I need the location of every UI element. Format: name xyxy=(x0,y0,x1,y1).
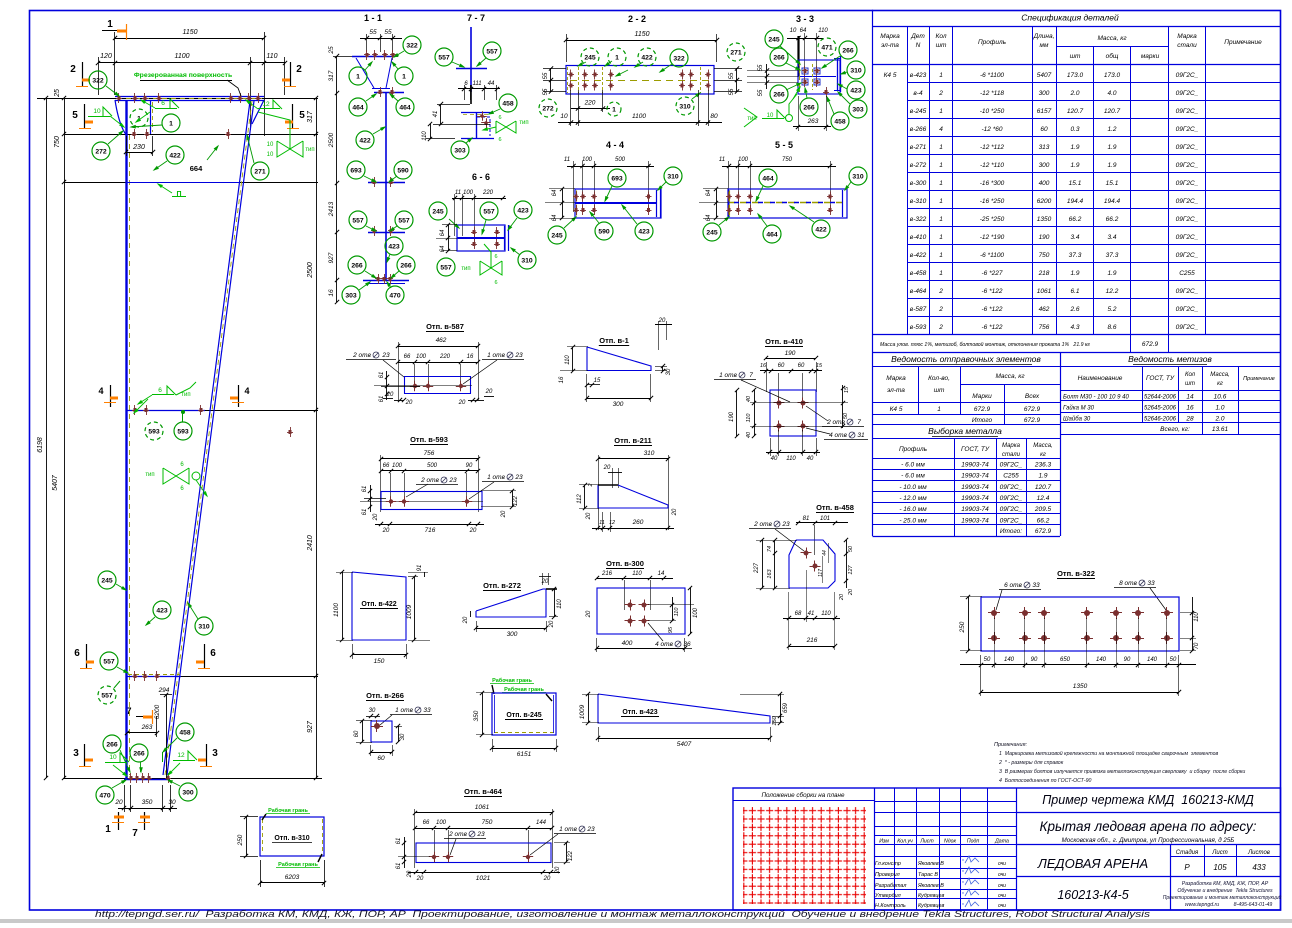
svg-text:Примечание: Примечание xyxy=(1243,376,1275,382)
svg-text:10: 10 xyxy=(267,152,274,158)
svg-text:19903-74: 19903-74 xyxy=(961,495,989,502)
svg-text:2: 2 xyxy=(588,483,594,487)
svg-text:557: 557 xyxy=(103,659,115,666)
svg-text:Дет: Дет xyxy=(910,33,925,40)
svg-text:Гайка М 30: Гайка М 30 xyxy=(1063,405,1095,412)
detail p-1 plate xyxy=(587,347,651,371)
svg-text:127: 127 xyxy=(848,564,854,574)
svg-text:6200: 6200 xyxy=(1037,198,1052,205)
svg-text:462: 462 xyxy=(436,337,447,344)
svg-text:590: 590 xyxy=(397,168,409,175)
svg-text:Марка: Марка xyxy=(1177,33,1197,40)
svg-text:1: 1 xyxy=(937,406,941,413)
svg-text:1 Маркировка метизовой крепеж: 1 Маркировка метизовой крепежности на мо… xyxy=(999,750,1219,757)
svg-text:Примечание: Примечание xyxy=(1224,39,1262,46)
svg-text:303: 303 xyxy=(345,293,357,300)
svg-text:11: 11 xyxy=(599,520,605,526)
svg-text:в-423: в-423 xyxy=(910,72,927,79)
svg-text:250: 250 xyxy=(959,621,966,633)
svg-text:15.1: 15.1 xyxy=(1069,180,1082,187)
svg-text:1: 1 xyxy=(939,270,943,277)
section 6-6 left dims 64 64 xyxy=(448,225,450,251)
signature scribbles xyxy=(965,856,979,863)
elevation section 6-6 level line xyxy=(126,676,318,678)
svg-text:55: 55 xyxy=(729,72,735,79)
svg-text:09Г2С_: 09Г2С_ xyxy=(1176,144,1199,151)
base plate xyxy=(124,779,170,781)
svg-text:-12 *110: -12 *110 xyxy=(980,162,1004,169)
svg-text:3: 3 xyxy=(212,748,218,759)
svg-text:-12 *118: -12 *118 xyxy=(980,90,1004,97)
svg-text:266: 266 xyxy=(773,55,785,62)
svg-text:очи: очи xyxy=(998,883,1006,889)
section 7-7 circle 458 xyxy=(499,94,517,112)
section 6-6 top dims 11 100 220 xyxy=(452,198,506,200)
svg-text:464: 464 xyxy=(762,176,774,183)
section 3-3 plate assembly xyxy=(798,60,840,94)
svg-text:09Г2С_: 09Г2С_ xyxy=(1176,216,1199,223)
svg-text:ЛЕДОВАЯ АРЕНА: ЛЕДОВАЯ АРЕНА xyxy=(1037,856,1148,871)
svg-text:К4 5: К4 5 xyxy=(884,72,897,79)
svg-text:263: 263 xyxy=(807,118,819,125)
svg-text:1.9: 1.9 xyxy=(1107,144,1116,151)
svg-text:458: 458 xyxy=(502,101,514,108)
detail p-1 dims xyxy=(572,347,574,371)
svg-text:09Г2С_: 09Г2С_ xyxy=(1176,288,1199,295)
svg-text:20: 20 xyxy=(386,392,394,398)
svg-text:1: 1 xyxy=(105,824,111,835)
svg-text:-6 *122: -6 *122 xyxy=(982,306,1003,313)
svg-text:105: 105 xyxy=(1213,863,1227,872)
spec table mass row xyxy=(873,334,1281,336)
svg-text:Кол-во,: Кол-во, xyxy=(928,375,950,382)
detail p-581 left dims xyxy=(386,371,388,400)
svg-text:-16 *300: -16 *300 xyxy=(980,180,1005,187)
svg-text:140: 140 xyxy=(1096,657,1107,663)
svg-text:30: 30 xyxy=(168,799,176,806)
detail p-581 plate xyxy=(404,376,471,378)
svg-text:Примечания:: Примечания: xyxy=(994,742,1028,748)
svg-text:19903-74: 19903-74 xyxy=(961,473,989,480)
svg-text:Масса улов. плюс 1%, метизоб,: Масса улов. плюс 1%, метизоб, болтовой м… xyxy=(880,341,1090,348)
svg-text:44: 44 xyxy=(488,81,495,87)
section 1-1 circles 557 xyxy=(349,211,367,229)
detail p-266 dims xyxy=(362,721,364,742)
svg-text:150: 150 xyxy=(374,658,385,665)
svg-text:6.1: 6.1 xyxy=(1070,288,1079,295)
svg-text:64: 64 xyxy=(552,214,558,221)
section marks 4 mid xyxy=(110,385,112,407)
svg-text:http://tepngd.ser.ru/ Разрабо: http://tepngd.ser.ru/ Разработка КМ, КМД… xyxy=(95,909,1150,920)
section 2-2 dashed circles 245 1 422 xyxy=(581,48,599,66)
svg-text:Рабочая грань: Рабочая грань xyxy=(492,677,532,684)
svg-text:1: 1 xyxy=(939,198,943,205)
svg-text:150: 150 xyxy=(772,715,778,725)
svg-text:-12 *60: -12 *60 xyxy=(982,126,1003,133)
svg-text:Кол.уч: Кол.уч xyxy=(897,839,913,845)
svg-text:28: 28 xyxy=(1185,416,1194,423)
svg-text:-6 *122: -6 *122 xyxy=(982,288,1003,295)
svg-text:310: 310 xyxy=(850,68,862,75)
detail p-410 dim 190 xyxy=(766,358,816,360)
svg-text:09Г2С_: 09Г2С_ xyxy=(1176,72,1199,79)
svg-text:2.0: 2.0 xyxy=(1214,416,1224,423)
svg-text:Рабочая грань: Рабочая грань xyxy=(268,807,308,814)
section 3-3 bolt squares xyxy=(802,68,808,74)
detail p-300 top dims xyxy=(597,578,673,580)
svg-text:Разработка КМ, КМД, КЖ, ПОР, А: Разработка КМ, КМД, КЖ, ПОР, АР xyxy=(1182,881,1269,887)
detail p-458 left dims xyxy=(774,540,776,588)
svg-text:10.6: 10.6 xyxy=(1214,394,1227,401)
svg-text:322: 322 xyxy=(673,56,685,63)
circle 245 mid xyxy=(98,571,116,589)
dim 263 xyxy=(127,732,157,734)
svg-text:5.2: 5.2 xyxy=(1107,306,1116,313)
svg-text:19903-74: 19903-74 xyxy=(961,506,989,513)
svg-text:тип: тип xyxy=(181,392,190,398)
svg-text:Отп. в-410: Отп. в-410 xyxy=(765,337,803,346)
svg-text:в-300: в-300 xyxy=(910,180,927,187)
svg-text:61: 61 xyxy=(362,509,368,516)
svg-text:31: 31 xyxy=(857,432,865,439)
svg-text:471: 471 xyxy=(821,45,833,52)
svg-text:245: 245 xyxy=(551,233,563,240)
svg-text:Положение сборки на плане: Положение сборки на плане xyxy=(761,791,845,799)
section 6-6 circles xyxy=(429,202,447,220)
svg-text:303: 303 xyxy=(454,148,466,155)
section marks 2 xyxy=(82,62,84,86)
svg-text:16: 16 xyxy=(328,289,335,297)
svg-text:20: 20 xyxy=(839,593,845,601)
detail p-272 dims xyxy=(476,628,546,630)
svg-text:Отп. в-587: Отп. в-587 xyxy=(426,322,464,331)
detail p-466 bolts xyxy=(432,855,436,859)
section 4-4 circles xyxy=(608,169,626,187)
svg-text:313: 313 xyxy=(1039,144,1050,151)
svg-text:Отп. в-211: Отп. в-211 xyxy=(614,436,651,445)
svg-text:55: 55 xyxy=(369,29,377,36)
svg-text:160213-К4-5: 160213-К4-5 xyxy=(1057,888,1128,902)
svg-text:09Г2С_: 09Г2С_ xyxy=(1176,306,1199,313)
section marks 6 xyxy=(86,644,88,668)
svg-text:41: 41 xyxy=(433,111,439,118)
svg-text:Лист: Лист xyxy=(919,839,934,845)
svg-text:423: 423 xyxy=(156,608,168,615)
svg-text:458: 458 xyxy=(834,119,846,126)
svg-text:50: 50 xyxy=(1170,657,1177,663)
svg-text:20: 20 xyxy=(463,616,469,624)
svg-text:2: 2 xyxy=(70,64,76,75)
detail p-272 plate xyxy=(476,589,546,617)
svg-text:Отп. в-422: Отп. в-422 xyxy=(361,601,396,608)
detail p-593 plate xyxy=(381,492,482,510)
svg-text:очи: очи xyxy=(998,872,1006,878)
svg-text:Отп. в-464: Отп. в-464 xyxy=(464,787,503,796)
svg-text:95: 95 xyxy=(668,626,674,633)
svg-text:Изм: Изм xyxy=(879,839,889,845)
svg-text:220: 220 xyxy=(482,190,494,196)
svg-text:74: 74 xyxy=(767,546,773,552)
section 7-7 dims 6-111-44 xyxy=(458,88,500,90)
section 6-6 blue segment xyxy=(127,676,181,678)
section 7-7 vertical member xyxy=(470,27,472,92)
svg-text:Отп. в-310: Отп. в-310 xyxy=(274,835,309,842)
detail p-581 bolt row line xyxy=(374,385,472,387)
svg-text:23: 23 xyxy=(514,352,523,359)
svg-text:10: 10 xyxy=(790,28,797,34)
detail p-245 dim 350 xyxy=(482,693,484,735)
section 4-4 bolts xyxy=(576,192,578,202)
svg-text:50: 50 xyxy=(848,545,854,552)
svg-text:09Г2С_: 09Г2С_ xyxy=(1176,324,1199,331)
svg-text:Тарас В: Тарас В xyxy=(918,872,938,878)
svg-text:227: 227 xyxy=(754,562,760,574)
svg-text:15: 15 xyxy=(594,378,601,384)
circle 271 xyxy=(251,162,269,180)
vedomost metizov table xyxy=(1142,366,1144,423)
top chord bolt marks xyxy=(118,93,120,103)
svg-text:750: 750 xyxy=(782,157,793,163)
detail p-300 bolts xyxy=(628,603,633,608)
detail p-581 bolts xyxy=(413,384,417,388)
svg-text:2500: 2500 xyxy=(328,132,335,148)
svg-text:20: 20 xyxy=(485,389,493,395)
detail p-211 plate xyxy=(598,485,668,508)
circle 310 mid xyxy=(195,617,213,635)
svg-text:245: 245 xyxy=(706,230,718,237)
detail p-310 dim 250 xyxy=(246,817,248,856)
svg-text:120.7: 120.7 xyxy=(1067,108,1084,115)
svg-text:кг: кг xyxy=(1040,452,1046,458)
svg-text:09Г2С_: 09Г2С_ xyxy=(1176,162,1199,169)
svg-text:1061: 1061 xyxy=(1037,288,1052,295)
svg-text:20: 20 xyxy=(407,870,413,878)
svg-text:11: 11 xyxy=(455,190,461,196)
svg-text:Отп. в-458: Отп. в-458 xyxy=(816,503,854,512)
title block project name row xyxy=(1017,812,1281,814)
svg-text:09Г2С_: 09Г2С_ xyxy=(1176,90,1199,97)
svg-text:3.4: 3.4 xyxy=(1070,234,1079,241)
section marks 3 xyxy=(84,744,86,766)
svg-text:100: 100 xyxy=(582,157,593,163)
svg-text:1: 1 xyxy=(939,252,943,259)
svg-text:557: 557 xyxy=(352,218,364,225)
svg-text:1: 1 xyxy=(107,19,113,30)
svg-text:1350: 1350 xyxy=(1073,683,1088,690)
svg-text:650: 650 xyxy=(1060,657,1071,663)
svg-text:ГОСТ, ТУ: ГОСТ, ТУ xyxy=(961,446,990,453)
svg-text:-12 *190: -12 *190 xyxy=(980,234,1005,241)
svg-text:4: 4 xyxy=(939,126,943,133)
svg-text:672.9: 672.9 xyxy=(1035,528,1052,535)
svg-text:Масса,: Масса, xyxy=(1210,372,1229,378)
svg-text:20: 20 xyxy=(555,866,561,874)
svg-text:716: 716 xyxy=(425,527,436,534)
svg-text:6: 6 xyxy=(498,115,501,121)
circle 266 pair at base xyxy=(103,735,121,753)
section 6-6 line bolt marks xyxy=(134,671,136,681)
detail p-272 right dims xyxy=(554,589,556,617)
circle 1 solid xyxy=(162,114,180,132)
detail p-458 bolts xyxy=(804,551,809,556)
svg-text:60: 60 xyxy=(377,755,385,762)
svg-text:60: 60 xyxy=(798,363,805,369)
svg-text:Рабочая грань: Рабочая грань xyxy=(504,686,544,693)
svg-text:-25 *250: -25 *250 xyxy=(980,216,1005,223)
svg-text:шт: шт xyxy=(936,42,947,49)
svg-text:Итого: Итого xyxy=(972,417,993,424)
svg-text:41: 41 xyxy=(808,611,815,617)
svg-text:310: 310 xyxy=(198,624,210,631)
spec table column lines xyxy=(907,65,909,335)
svg-text:стали: стали xyxy=(1002,452,1021,458)
svg-text:4 отв: 4 отв xyxy=(655,641,673,648)
detail p-211 dim 310 xyxy=(598,458,668,460)
svg-text:64: 64 xyxy=(706,189,712,196)
svg-text:7: 7 xyxy=(749,372,753,379)
svg-text:Проверил: Проверил xyxy=(875,872,900,878)
svg-text:190: 190 xyxy=(785,350,796,357)
svg-text:6: 6 xyxy=(494,280,497,286)
svg-text:40: 40 xyxy=(771,456,778,462)
detail p-581 bottom dims xyxy=(394,400,404,402)
svg-text:557: 557 xyxy=(483,209,495,216)
svg-text:Nдок: Nдок xyxy=(944,839,956,845)
svg-text:2 * - размеры для справок: 2 * - размеры для справок xyxy=(998,760,1064,766)
detail p-581 dim 462 xyxy=(398,346,478,348)
svg-text:672.9: 672.9 xyxy=(1024,406,1041,413)
svg-text:173.0: 173.0 xyxy=(1104,72,1121,79)
svg-text:в-464: в-464 xyxy=(910,288,927,295)
detail p-300 right dims xyxy=(672,597,674,621)
svg-text:163: 163 xyxy=(767,568,773,578)
detail p-458 top dims xyxy=(796,522,848,524)
svg-text:659: 659 xyxy=(783,702,789,713)
svg-text:1.0: 1.0 xyxy=(1215,405,1224,412)
title block object row xyxy=(1017,876,1281,878)
svg-text:12: 12 xyxy=(262,101,270,108)
section 3-3 right I-end xyxy=(837,58,839,90)
svg-text:мм: мм xyxy=(1040,42,1049,49)
svg-text:100: 100 xyxy=(738,157,749,163)
detail p-310 dim 6203 xyxy=(260,882,324,884)
svg-text:Проектирование и монтаж металл: Проектирование и монтаж металлоконструкц… xyxy=(1163,894,1282,901)
circle 422 xyxy=(166,146,184,164)
svg-text:Всего, кг:: Всего, кг: xyxy=(1160,426,1190,433)
svg-text:Стадия: Стадия xyxy=(1176,850,1199,856)
svg-text:271: 271 xyxy=(730,50,742,57)
svg-text:Масса, кг: Масса, кг xyxy=(1097,35,1127,42)
svg-text:230: 230 xyxy=(132,144,145,151)
detail p-423 bottom dim 5407 xyxy=(598,738,770,740)
svg-text:756: 756 xyxy=(1039,324,1050,331)
section marks 1 and 7 bottom xyxy=(118,812,120,830)
svg-text:14: 14 xyxy=(658,571,665,577)
svg-text:245: 245 xyxy=(101,578,113,585)
svg-text:-10 *250: -10 *250 xyxy=(980,108,1005,115)
section 1-1 web vertical xyxy=(385,93,387,281)
svg-text:110: 110 xyxy=(422,131,428,141)
section 2-2 circle 272 xyxy=(539,99,557,117)
circle 423 mid xyxy=(153,601,171,619)
svg-text:173.0: 173.0 xyxy=(1067,72,1084,79)
detail p-423 plate xyxy=(598,694,770,723)
detail p-466 dim 1061 xyxy=(415,812,552,814)
circle 593 dashed at 4-4 xyxy=(145,422,163,440)
svg-text:110: 110 xyxy=(266,53,277,60)
svg-text:66.2: 66.2 xyxy=(1069,216,1082,223)
detail p-410 bolts xyxy=(777,401,782,406)
svg-text:1: 1 xyxy=(356,74,360,81)
svg-text:N: N xyxy=(916,42,921,49)
svg-text:19903-74: 19903-74 xyxy=(961,517,989,524)
bottom gray strip xyxy=(0,919,1292,923)
svg-text:13.61: 13.61 xyxy=(1212,426,1229,433)
svg-text:7: 7 xyxy=(857,419,861,426)
section 7-7 dims 41 110 xyxy=(440,104,442,124)
svg-text:37.3: 37.3 xyxy=(1106,252,1119,259)
svg-text:110: 110 xyxy=(821,611,831,617)
svg-text:6157: 6157 xyxy=(1037,108,1052,115)
elevation top chord level line xyxy=(37,98,318,100)
svg-text:20: 20 xyxy=(469,528,477,534)
section 2-2 beam outline xyxy=(566,66,714,95)
svg-text:30: 30 xyxy=(369,708,376,714)
svg-text:2.0: 2.0 xyxy=(1069,90,1079,97)
svg-text:300: 300 xyxy=(613,401,624,408)
svg-text:09Г2С_: 09Г2С_ xyxy=(1176,198,1199,205)
detail p-322 right dims xyxy=(1192,597,1194,651)
svg-text:750: 750 xyxy=(482,819,493,826)
section 1-1 circle 322 xyxy=(403,36,421,54)
svg-text:20: 20 xyxy=(586,610,592,618)
svg-text:1: 1 xyxy=(939,72,943,79)
detail p-266 plate xyxy=(371,721,392,742)
svg-text:очи: очи xyxy=(998,893,1006,899)
svg-text:Масса, кг: Масса, кг xyxy=(995,373,1025,380)
detail p-211 left dims xyxy=(584,485,586,508)
detail p-581 hole dims xyxy=(398,362,478,364)
svg-text:220: 220 xyxy=(439,354,451,360)
svg-text:10: 10 xyxy=(109,754,117,761)
svg-text:стали: стали xyxy=(1177,42,1197,49)
svg-text:4.0: 4.0 xyxy=(1107,90,1116,97)
detail p-410 bolt row extension lines xyxy=(750,402,848,404)
svg-text:Отп. в-322: Отп. в-322 xyxy=(1057,569,1095,578)
svg-text:190: 190 xyxy=(1039,234,1050,241)
spec table data rows xyxy=(908,82,1281,84)
spec table title row xyxy=(872,10,874,352)
detail p-322 left dim 250 xyxy=(968,597,970,651)
detail p-322 bolts row 1 xyxy=(991,610,997,616)
svg-text:20: 20 xyxy=(549,620,555,628)
svg-text:5: 5 xyxy=(72,110,78,121)
section 1-1 taper to web xyxy=(356,58,374,88)
section 1-1 top flange xyxy=(352,56,395,58)
svg-text:750: 750 xyxy=(1039,252,1050,259)
section 2-2 right dims 55 55 xyxy=(736,68,738,92)
title block main vertical dividers xyxy=(874,788,876,910)
svg-text:61: 61 xyxy=(396,863,402,870)
svg-text:6: 6 xyxy=(161,100,165,107)
svg-text:400: 400 xyxy=(622,640,633,647)
svg-text:Отп. в-266: Отп. в-266 xyxy=(366,691,404,700)
svg-text:90: 90 xyxy=(1031,657,1038,663)
section marks 5 xyxy=(84,104,86,128)
svg-text:23: 23 xyxy=(586,826,595,833)
svg-text:110: 110 xyxy=(746,413,752,423)
svg-text:6 отв: 6 отв xyxy=(1004,582,1022,589)
